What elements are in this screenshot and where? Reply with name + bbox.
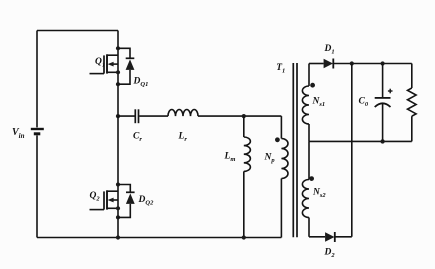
diode D2 [325, 232, 335, 242]
transistor Q2 arrow [108, 198, 114, 203]
node Q2 drain [116, 182, 120, 186]
transistor Q1 arrow [108, 62, 114, 67]
svg-text:T1: T1 [276, 63, 285, 75]
svg-text:Lm: Lm [224, 152, 236, 164]
svg-text:Lr: Lr [178, 132, 188, 144]
wire center tap return [309, 140, 412, 142]
svg-text:DQ2: DQ2 [138, 195, 155, 207]
svg-text:C0: C0 [359, 97, 369, 109]
transistor Q1 [90, 31, 119, 117]
svg-text:Vin: Vin [12, 127, 25, 140]
node Lm top [242, 114, 246, 118]
transistor Q2 [90, 116, 119, 237]
capacitor C0 [375, 64, 391, 142]
diode DQ2 [118, 185, 135, 218]
node Q2 source tap [116, 206, 120, 210]
wire Lr to Np top [198, 115, 281, 117]
capacitor Cr [135, 109, 138, 123]
wire left rail lower [36, 135, 38, 237]
battery Vin long plate [31, 128, 44, 130]
node Q1 drain [116, 46, 120, 50]
node Q2 diode return [116, 215, 120, 219]
svg-text:Q2: Q2 [90, 191, 101, 203]
transformer T1 core [293, 63, 297, 237]
wire Ns2 to D2 [309, 236, 325, 238]
svg-text:Ns1: Ns1 [312, 97, 326, 109]
wire Ns1 to D1 [309, 63, 324, 65]
node Q2 bottom rail [116, 235, 120, 239]
diode D1 [324, 59, 334, 69]
svg-text:DQ1: DQ1 [133, 77, 149, 89]
node Np polarity dot [275, 137, 280, 142]
node Q1 source tap [116, 70, 120, 74]
inductor Lm [244, 116, 251, 237]
node Ns2 polarity dot [309, 176, 314, 181]
svg-text:D2: D2 [324, 248, 336, 260]
resistor load [408, 64, 417, 142]
wire D2 cathode riser [351, 64, 353, 237]
wire Cr to Lr [139, 115, 168, 117]
node Q1 diode return [116, 82, 120, 86]
wire D2 to riser [335, 236, 352, 238]
inductor Lr [168, 110, 198, 117]
svg-text:Ns2: Ns2 [312, 188, 326, 200]
svg-text:D1: D1 [324, 44, 335, 56]
diode DQ1 [118, 48, 134, 84]
wire bottom rail [37, 237, 281, 239]
node D2 riser top [350, 61, 354, 65]
node half-bridge midpoint [116, 114, 120, 118]
capacitor C0 plus sign [388, 89, 393, 94]
wire output positive rail [333, 63, 412, 65]
node Lm bottom [242, 235, 246, 239]
battery Vin short plate [34, 132, 41, 135]
wire top rail [37, 30, 118, 32]
node C0 bottom [380, 139, 384, 143]
svg-text:Np: Np [264, 153, 276, 165]
winding Np [281, 116, 288, 237]
svg-text:Cr: Cr [133, 132, 142, 144]
wire midpoint to Cr [118, 115, 135, 117]
node C0 top [381, 61, 385, 65]
winding Ns2 [302, 141, 309, 236]
node Ns1 polarity dot [310, 83, 315, 88]
wire left rail upper [36, 31, 38, 128]
winding Ns1 [302, 64, 309, 142]
